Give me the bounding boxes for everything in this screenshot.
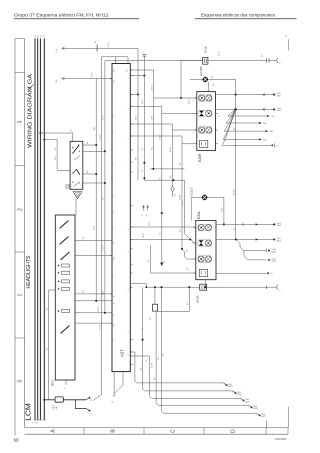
wire jog to terminal 3 xyxy=(236,240,276,254)
svg-text:0.8 W: 0.8 W xyxy=(189,99,191,104)
terminal arrows LCM output xyxy=(86,397,93,415)
svg-text:S29: S29 xyxy=(67,183,71,189)
svg-text:X1: X1 xyxy=(91,399,93,401)
svg-text:1: 1 xyxy=(193,100,195,101)
wire E26L row2 to terminal xyxy=(216,237,282,242)
svg-text:LCM: LCM xyxy=(24,403,33,421)
wire row to terminal 1 xyxy=(216,93,282,97)
svg-text:0.8: 0.8 xyxy=(94,128,96,130)
fuse F17 5A xyxy=(52,397,63,410)
wire switch to panel switch xyxy=(75,199,77,215)
svg-text:0.8: 0.8 xyxy=(163,354,165,356)
bus bottom pin labels xyxy=(32,420,45,425)
svg-text:0.8: 0.8 xyxy=(140,368,142,370)
svg-text:GA4: GA4 xyxy=(263,138,267,141)
svg-text:0.8 W: 0.8 W xyxy=(108,42,110,47)
illumination triangle symbol xyxy=(73,192,82,199)
bulb E13LF xyxy=(190,187,225,225)
svg-text:0.8: 0.8 xyxy=(83,237,85,239)
svg-text:5: 5 xyxy=(128,354,130,355)
svg-text:31: 31 xyxy=(218,115,220,117)
svg-text:1.0: 1.0 xyxy=(146,360,148,362)
E26L pins left xyxy=(194,228,196,273)
svg-text:GA25: GA25 xyxy=(245,400,250,403)
wire to position lamp right xyxy=(130,124,197,186)
svg-text:0.8: 0.8 xyxy=(103,198,105,200)
svg-text:0.8 GR: 0.8 GR xyxy=(180,194,182,200)
svg-text:0.8 W: 0.8 W xyxy=(151,85,153,90)
svg-text:9: 9 xyxy=(113,275,115,276)
wire right border stub xyxy=(288,407,290,428)
wire vertical lamp feed xyxy=(103,60,203,312)
header title right xyxy=(195,13,297,19)
wire gauge labels texture xyxy=(46,51,263,368)
E26L main beam lamps xyxy=(198,224,212,230)
svg-text:E13LF: E13LF xyxy=(190,187,194,196)
svg-text:S01: S01 xyxy=(51,380,55,386)
wire stub right edge xyxy=(286,35,288,51)
control unit A27 xyxy=(112,64,130,372)
wire feed row upper with connector arrow xyxy=(55,41,138,53)
svg-text:GA16: GA16 xyxy=(237,393,242,396)
svg-text:1.0: 1.0 xyxy=(233,228,235,230)
svg-text:F1: F1 xyxy=(286,35,288,37)
wire to E26L row4 xyxy=(148,245,196,273)
wire cross link row xyxy=(152,168,190,240)
inline connector top right xyxy=(267,58,282,64)
svg-text:1.0: 1.0 xyxy=(71,129,73,131)
E26L indicator box xyxy=(199,269,207,276)
svg-text:X2: X2 xyxy=(91,413,93,415)
svg-text:GA27: GA27 xyxy=(261,415,266,418)
wire jumper row over A27 xyxy=(102,57,128,64)
svg-text:0.8 R: 0.8 R xyxy=(103,245,105,250)
svg-text:0.8: 0.8 xyxy=(46,308,48,310)
svg-text:1.0 W: 1.0 W xyxy=(149,221,151,226)
wire corner down to node column xyxy=(130,48,139,180)
svg-text:1: 1 xyxy=(193,132,195,133)
E26R indicator box xyxy=(200,140,208,147)
switch unit S01 xyxy=(51,215,75,386)
svg-text:GA11: GA11 xyxy=(277,94,282,97)
svg-text:Esquemas elétricos dos compone: Esquemas elétricos dos componentes xyxy=(201,13,276,18)
svg-text:1: 1 xyxy=(18,293,24,296)
inline component lower xyxy=(150,287,158,320)
svg-text:0.8 W: 0.8 W xyxy=(182,200,184,205)
svg-text:1.0: 1.0 xyxy=(160,178,162,180)
splice symbol mid xyxy=(160,213,165,266)
svg-text:F17: F17 xyxy=(52,405,55,410)
svg-text:0.8: 0.8 xyxy=(83,290,85,292)
connector E13L xyxy=(181,45,267,64)
svg-text:WIRING DIAGRAM GA: WIRING DIAGRAM GA xyxy=(27,73,33,148)
svg-text:1.0: 1.0 xyxy=(142,170,144,172)
E26R main beam lamps xyxy=(198,95,212,101)
A27 pin labels right edge xyxy=(128,70,133,365)
wire to E26L row3 xyxy=(182,249,196,259)
wire vertical dip beam feed xyxy=(94,79,96,301)
svg-text:2: 2 xyxy=(113,307,115,308)
bulb E13RF xyxy=(190,66,236,92)
svg-text:1.0: 1.0 xyxy=(142,148,144,150)
svg-text:1.0 W: 1.0 W xyxy=(151,115,153,120)
fan terminal row 3 xyxy=(249,130,273,133)
staircase wire 5 xyxy=(160,286,265,418)
svg-text:0.8: 0.8 xyxy=(154,378,156,380)
E26R pins right xyxy=(216,113,220,143)
fan terminal row 2 xyxy=(243,122,267,125)
svg-text:0.8: 0.8 xyxy=(160,233,162,235)
staircase wire 2 xyxy=(140,287,241,396)
svg-text:1: 1 xyxy=(113,291,115,292)
A27 top pin labels xyxy=(113,69,129,71)
svg-text:30: 30 xyxy=(44,35,46,37)
bottom coordinate band xyxy=(25,428,288,435)
wire A27 to E26L row2 xyxy=(130,232,196,243)
svg-text:3: 3 xyxy=(18,120,24,123)
headlamp unit E26L xyxy=(196,211,216,280)
svg-text:0.8: 0.8 xyxy=(47,348,49,350)
svg-text:0.8: 0.8 xyxy=(213,84,215,86)
S01 contact rows xyxy=(58,264,70,313)
svg-text:8: 8 xyxy=(113,259,115,260)
wire branch below E13R xyxy=(158,286,191,311)
svg-text:4: 4 xyxy=(113,339,115,340)
A27 bottom pin wire 1 xyxy=(112,372,115,403)
left coordinate column xyxy=(15,39,25,436)
svg-text:0.8 SB: 0.8 SB xyxy=(151,362,153,368)
svg-text:1: 1 xyxy=(113,147,115,148)
svg-text:0.8 GN: 0.8 GN xyxy=(98,306,100,312)
svg-text:1.0 GN: 1.0 GN xyxy=(143,232,145,238)
wire E13L branch down xyxy=(180,60,182,99)
svg-text:31: 31 xyxy=(142,215,144,217)
svg-text:31: 31 xyxy=(164,261,166,263)
wire bus to fuse xyxy=(43,399,55,401)
wire splice down to left headlamp xyxy=(233,109,235,239)
A27 bottom pin wire 2 xyxy=(114,372,123,394)
svg-text:7: 7 xyxy=(113,243,115,244)
E26R position lamps xyxy=(198,127,212,133)
svg-text:1: 1 xyxy=(193,146,195,147)
wire long vertical to F17 branch xyxy=(93,57,102,401)
wire to dip beam right xyxy=(130,106,197,214)
svg-text:3: 3 xyxy=(113,179,115,180)
svg-text:Grupo 37 Esquema elétrico FM,: Grupo 37 Esquema elétrico FM, FH, NH12 xyxy=(14,13,109,18)
svg-text:0.8: 0.8 xyxy=(180,230,182,232)
svg-text:8: 8 xyxy=(113,115,115,116)
svg-text:0.8: 0.8 xyxy=(187,250,189,252)
wire E26L row1 to terminal xyxy=(216,222,282,227)
svg-text:1.0: 1.0 xyxy=(55,148,57,150)
S01 bottom pin xyxy=(64,380,66,389)
svg-text:T3019834: T3019834 xyxy=(275,437,287,441)
svg-text:0: 0 xyxy=(18,379,24,382)
svg-text:31: 31 xyxy=(270,273,272,275)
svg-text:2: 2 xyxy=(18,208,24,211)
svg-text:6: 6 xyxy=(64,388,66,389)
connector diamond symbol xyxy=(171,186,177,197)
svg-text:E26L: E26L xyxy=(197,211,201,219)
svg-text:S87: S87 xyxy=(150,317,152,320)
svg-text:5: 5 xyxy=(113,211,115,212)
svg-text:A1: A1 xyxy=(113,69,116,71)
svg-text:7: 7 xyxy=(113,99,115,100)
svg-text:1.0: 1.0 xyxy=(233,128,235,130)
svg-text:C: C xyxy=(171,429,177,433)
svg-text:6: 6 xyxy=(113,227,115,228)
svg-text:0.8: 0.8 xyxy=(180,163,182,165)
svg-text:B2: B2 xyxy=(126,69,128,71)
svg-text:12: 12 xyxy=(128,228,130,230)
svg-text:GA15: GA15 xyxy=(228,385,233,388)
svg-text:GA12: GA12 xyxy=(277,109,282,112)
svg-text:31: 31 xyxy=(146,215,148,217)
svg-text:0.8: 0.8 xyxy=(148,260,150,262)
svg-text:0.8 GR: 0.8 GR xyxy=(170,146,172,152)
svg-text:9: 9 xyxy=(113,131,115,132)
wire to high beam right xyxy=(130,70,197,169)
E26R dip beam lamp dark xyxy=(198,110,212,116)
wires S01 to A27 xyxy=(75,237,112,323)
splice node fan xyxy=(222,79,253,145)
svg-text:31: 31 xyxy=(35,35,37,37)
svg-text:4: 4 xyxy=(113,195,115,196)
fan terminal row 5 xyxy=(253,143,278,147)
svg-text:GA22: GA22 xyxy=(277,239,282,242)
svg-text:0.8: 0.8 xyxy=(187,303,189,305)
staircase wire 4 xyxy=(154,311,258,410)
wire feed row lower with connector arrow xyxy=(55,72,112,83)
svg-text:0.8: 0.8 xyxy=(142,328,144,330)
svg-text:0.8 R: 0.8 R xyxy=(92,72,94,77)
svg-text:1: 1 xyxy=(193,115,195,116)
wire stub above band divider xyxy=(265,421,267,428)
svg-text:68: 68 xyxy=(14,438,20,443)
terminal arrows small mid xyxy=(142,205,149,216)
wire row to terminal 2 with splice xyxy=(216,108,282,112)
wire A27 pin link to lower horizontal xyxy=(130,284,147,289)
svg-text:E26R: E26R xyxy=(198,153,202,162)
svg-text:7: 7 xyxy=(128,164,130,165)
fan terminal row 1 xyxy=(248,115,274,118)
wire switch pin rows to verticals xyxy=(83,142,106,184)
bus tap to switch upper xyxy=(39,129,72,141)
svg-text:GA24: GA24 xyxy=(271,260,276,263)
svg-text:B1: B1 xyxy=(95,41,97,43)
svg-text:0.8 SB: 0.8 SB xyxy=(99,324,101,330)
svg-text:GA3: GA3 xyxy=(270,130,274,133)
svg-text:0.8: 0.8 xyxy=(170,176,172,178)
svg-text:E13R: E13R xyxy=(196,295,200,303)
svg-text:1.0: 1.0 xyxy=(151,148,153,150)
svg-text:6: 6 xyxy=(113,83,115,84)
svg-text:A27: A27 xyxy=(119,349,124,357)
svg-text:5: 5 xyxy=(128,138,130,139)
svg-text:1.0: 1.0 xyxy=(187,268,189,270)
E26L dip beam lamp dark xyxy=(197,240,212,246)
connector E13R xyxy=(196,284,207,303)
svg-text:54: 54 xyxy=(40,35,42,37)
A27 pin labels left edge xyxy=(110,79,116,327)
svg-text:HEADLIGHTS: HEADLIGHTS xyxy=(26,255,32,289)
svg-text:1.0: 1.0 xyxy=(262,55,264,57)
svg-text:2: 2 xyxy=(112,341,114,342)
wire E26L row4 to terminal xyxy=(216,272,273,275)
header title left xyxy=(14,13,139,19)
svg-text:3: 3 xyxy=(113,323,115,324)
svg-text:A1: A1 xyxy=(25,93,28,95)
headlamp unit E26R xyxy=(197,92,216,162)
svg-text:0.8: 0.8 xyxy=(136,158,138,160)
wire arrow to frame left xyxy=(25,85,34,96)
svg-text:E13L: E13L xyxy=(204,45,208,52)
fan terminal row 4 xyxy=(243,138,267,141)
svg-text:D: D xyxy=(231,429,237,433)
E26R pins left xyxy=(193,98,197,147)
svg-text:E13RF: E13RF xyxy=(199,66,203,76)
svg-text:4: 4 xyxy=(128,78,130,79)
svg-text:0.8 SB: 0.8 SB xyxy=(99,134,101,140)
svg-text:1.0 GN: 1.0 GN xyxy=(160,134,162,140)
svg-text:58: 58 xyxy=(38,35,40,37)
svg-text:GA21: GA21 xyxy=(277,224,282,227)
svg-text:0.8: 0.8 xyxy=(87,171,89,173)
svg-text:1 2 3 4: 1 2 3 4 xyxy=(32,423,39,425)
svg-text:0.8: 0.8 xyxy=(158,358,160,360)
headlight switch S03 S29 xyxy=(64,141,82,189)
svg-text:0.8 R: 0.8 R xyxy=(103,115,105,120)
svg-text:12: 12 xyxy=(128,289,130,291)
LCM supply bus wires xyxy=(34,35,46,420)
svg-text:31: 31 xyxy=(276,145,278,147)
svg-text:GA23: GA23 xyxy=(271,250,276,253)
wire to indicator right xyxy=(130,136,197,250)
staircase wire 1 xyxy=(130,352,232,388)
svg-text:9: 9 xyxy=(128,251,130,252)
wire fuse output xyxy=(63,400,86,409)
A27 internal pin number labels xyxy=(113,83,115,340)
wire S01 left feed xyxy=(47,290,56,400)
svg-text:GA26: GA26 xyxy=(253,407,258,410)
svg-text:11: 11 xyxy=(128,108,130,110)
wire long horizontal lower xyxy=(146,280,281,291)
svg-text:0.8 W: 0.8 W xyxy=(222,207,224,212)
svg-text:1.0 GN: 1.0 GN xyxy=(233,189,235,195)
wire vertical node row1 xyxy=(130,51,146,181)
E26L position lamps xyxy=(198,256,212,262)
wire jog to terminal 4 xyxy=(240,247,276,263)
bus tap to switch lower xyxy=(43,138,70,170)
svg-text:GA2: GA2 xyxy=(263,122,267,125)
svg-text:0.8: 0.8 xyxy=(212,76,214,78)
wire A27 to E26L row1 xyxy=(130,221,196,227)
svg-text:1.0 W: 1.0 W xyxy=(142,99,144,104)
svg-text:1.0 W: 1.0 W xyxy=(136,115,138,120)
S01 switch levers xyxy=(59,221,69,334)
svg-text:31: 31 xyxy=(112,401,114,403)
svg-text:0.8: 0.8 xyxy=(87,142,89,144)
wire rows mid left lamps xyxy=(144,169,163,180)
svg-text:1: 1 xyxy=(128,331,130,332)
staircase wire 3 xyxy=(130,356,249,403)
svg-text:2: 2 xyxy=(113,163,115,164)
